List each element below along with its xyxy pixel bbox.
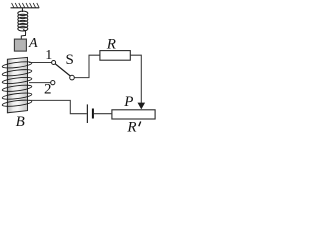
svg-text:1: 1 bbox=[45, 48, 52, 63]
switch S blade bbox=[55, 64, 70, 76]
spring bbox=[18, 8, 28, 31]
svg-text:R: R bbox=[106, 37, 116, 53]
resistor R box bbox=[100, 51, 130, 61]
hook bbox=[21, 30, 25, 40]
rheostat R' box bbox=[112, 110, 155, 119]
slider arrowhead bbox=[138, 103, 146, 110]
contact 2 circle bbox=[51, 81, 55, 85]
wire R to slider arrow bbox=[130, 55, 141, 103]
battery short plate bbox=[92, 109, 94, 119]
contact 1 circle bbox=[52, 61, 56, 65]
svg-text:S: S bbox=[66, 52, 74, 68]
svg-text:B: B bbox=[16, 114, 25, 130]
block A bbox=[14, 39, 26, 51]
wire coil tap to contact 1 bbox=[29, 62, 51, 64]
wire coil tap to contact 2 bbox=[29, 82, 51, 84]
svg-text:R: R bbox=[126, 119, 136, 135]
switch pivot circle bbox=[70, 75, 75, 80]
ceiling bbox=[11, 3, 40, 8]
wire pivot to resistor R bbox=[75, 55, 100, 77]
wire coil bottom to battery bbox=[29, 100, 87, 113]
wire battery to rheostat bbox=[94, 113, 112, 115]
battery long plate bbox=[87, 104, 88, 123]
coil turns bbox=[2, 61, 32, 108]
svg-text:A: A bbox=[28, 36, 38, 51]
coil core bbox=[7, 57, 27, 112]
svg-text:P: P bbox=[123, 94, 133, 110]
svg-text:2: 2 bbox=[44, 82, 52, 98]
